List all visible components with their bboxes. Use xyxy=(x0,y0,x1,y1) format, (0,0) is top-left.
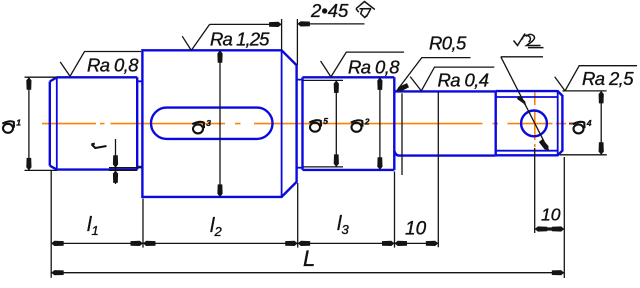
segment 4 / block shared face xyxy=(495,91,497,155)
arrow L right xyxy=(552,270,565,275)
svg-text:Ra 0,4: Ra 0,4 xyxy=(438,70,489,91)
d2 dimension line xyxy=(379,77,381,169)
svg-text:Ra 0,8: Ra 0,8 xyxy=(348,57,400,78)
surface boundary line B xyxy=(437,92,439,248)
arrow l3 left xyxy=(298,241,311,246)
svg-text:10: 10 xyxy=(541,205,561,225)
svg-text:R0,5: R0,5 xyxy=(429,33,467,54)
label d1 xyxy=(2,121,14,133)
hole circle xyxy=(521,111,547,137)
R0.5 leader xyxy=(397,58,471,91)
surface boundary line A xyxy=(401,93,403,175)
arrow d5 up xyxy=(334,80,339,93)
end block chamfer line xyxy=(557,91,559,155)
arrow groove1 up xyxy=(113,170,118,183)
hole axis extension xyxy=(534,148,536,233)
bottom extension line x143 xyxy=(142,199,144,248)
centerline end dash dark xyxy=(569,123,575,125)
hole leader diagonal xyxy=(501,57,549,150)
hole vertical centerline xyxy=(534,93,536,148)
arrow hole leader mid xyxy=(517,96,527,108)
roughness mark Ra 1,25 seg2 xyxy=(182,24,209,50)
bottom extension line x297.7 xyxy=(297,183,299,248)
right extension line x564.3 xyxy=(563,157,565,278)
chamfer dimension line left / Ra1.25 shelf xyxy=(210,23,282,25)
arrow d2 down xyxy=(377,157,382,170)
arrow l2 left xyxy=(143,241,156,246)
arrow L left xyxy=(51,270,64,275)
chamfer dimension line right xyxy=(297,23,364,25)
arrow d3 up xyxy=(217,50,222,63)
arrow chamfer right xyxy=(297,21,310,26)
d1 extension lines xyxy=(25,77,58,170)
arrow groove1 down xyxy=(113,155,118,168)
svg-text:2: 2 xyxy=(364,116,370,126)
shaft segment 2 d3 outline xyxy=(142,50,296,197)
arrow l2 right xyxy=(285,241,298,246)
label d4 xyxy=(573,122,585,134)
svg-text:3: 3 xyxy=(206,118,211,128)
roughness mark Ra 2,5 block xyxy=(555,66,637,91)
groove at seg1/seg2 junction xyxy=(137,81,142,166)
d1 dimension line xyxy=(28,77,30,170)
bottom extension line x394.5 xyxy=(394,172,396,248)
centerline main axis xyxy=(42,93,566,148)
svg-text:4: 4 xyxy=(586,118,592,128)
svg-text:l1: l1 xyxy=(87,214,99,238)
arrow d1 down xyxy=(26,158,31,171)
groove depth 1 extension lines xyxy=(109,168,142,171)
10b fat bar xyxy=(543,227,557,230)
groove depth 1 dimension line xyxy=(115,139,117,184)
arrow 10a left xyxy=(395,241,408,246)
d3 dimension line xyxy=(219,50,221,197)
roughness mark Ra 0,4 seg4 xyxy=(410,67,494,91)
arrow chamfer left xyxy=(269,22,282,27)
groove at seg2/seg3 junction xyxy=(297,80,303,168)
svg-text:5: 5 xyxy=(323,116,328,126)
end block flat lines xyxy=(496,97,558,151)
svg-text:10: 10 xyxy=(405,219,427,240)
bottom extension line x51 xyxy=(50,171,52,278)
svg-text:l3: l3 xyxy=(337,213,349,237)
l2 dimension line xyxy=(143,242,298,244)
arrow d3 down xyxy=(217,184,222,197)
segment 1 right face xyxy=(136,77,138,169)
keyway slot xyxy=(151,108,273,139)
svg-text:l2: l2 xyxy=(210,215,222,239)
roughness mark Ra 0,8 seg1 xyxy=(60,52,141,77)
d5 extension lines xyxy=(303,80,343,166)
segment 2 chamfer line xyxy=(281,50,283,197)
arrow l1 right xyxy=(131,241,144,246)
label 1 groove depth xyxy=(92,144,107,148)
roughness mark Ra 0,8 seg3 xyxy=(321,52,405,77)
arrow R0.5 xyxy=(397,83,409,91)
svg-text:L: L xyxy=(303,246,315,271)
svg-text:Ra 2,5: Ra 2,5 xyxy=(582,68,634,89)
label d2 xyxy=(351,120,363,132)
arrow 10a right xyxy=(426,241,439,246)
arrow 10b left xyxy=(535,226,548,231)
segment 1 chamfer line xyxy=(56,77,58,169)
d4 extension lines xyxy=(560,91,607,155)
arrow d5 down xyxy=(334,154,339,167)
arrow d1 up xyxy=(26,77,31,90)
shaft segment 3 d2 outline xyxy=(303,77,395,170)
d4 dimension line xyxy=(600,91,602,155)
hole leader shelf xyxy=(501,56,543,58)
hole callout symbol xyxy=(514,34,544,48)
arrow l1 left xyxy=(51,241,64,246)
shaft segment 1 d1 outline xyxy=(50,77,137,169)
10 first dimension line xyxy=(395,242,439,244)
svg-text:Ra 0,8: Ra 0,8 xyxy=(87,55,139,76)
arrow d2 up xyxy=(377,77,382,90)
arrow 10b right xyxy=(552,226,565,231)
end block d4 outline xyxy=(496,91,563,155)
svg-text:2•45: 2•45 xyxy=(310,0,349,21)
l3 dimension line xyxy=(298,242,395,244)
10 second dimension line xyxy=(535,228,565,230)
shaft segment 4 outline with fillets xyxy=(394,91,495,155)
arrow hole leader end xyxy=(539,139,549,150)
arrow d4 down xyxy=(599,142,604,155)
label d3 xyxy=(192,122,204,134)
label d5 xyxy=(309,120,321,132)
chamfer 2x45 extension lines xyxy=(282,19,298,65)
L dimension line xyxy=(51,272,564,274)
chamfer flag symbol xyxy=(356,2,375,18)
l1 dimension line xyxy=(51,242,143,244)
arrow d4 up xyxy=(599,91,604,104)
d5 dimension line xyxy=(335,80,337,166)
svg-text:1: 1 xyxy=(16,117,21,127)
svg-text:Ra 1,25: Ra 1,25 xyxy=(210,29,270,50)
arrow l3 right xyxy=(382,241,395,246)
